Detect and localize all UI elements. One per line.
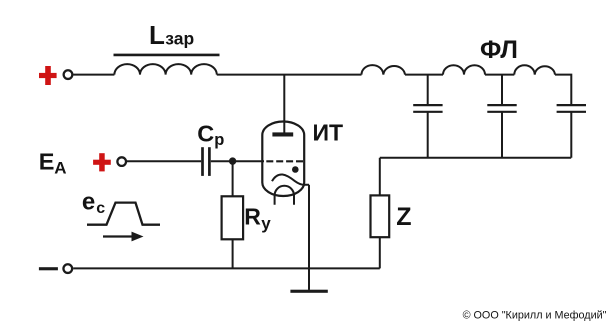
wire bottom bus — [73, 267, 380, 269]
minus terminal symbol — [39, 267, 58, 270]
inductor L2 (filter) — [362, 65, 406, 75]
capacitor C3 (filter) — [557, 105, 586, 112]
capacitor C2 (filter) — [487, 75, 516, 158]
wire cathode down to ground — [308, 185, 310, 290]
wire Ry bottom to bus — [232, 239, 234, 268]
tube anode lead wire — [283, 75, 285, 136]
svg-text:L: L — [149, 20, 165, 50]
label Lzar — [114, 20, 220, 55]
terminal node (positive supply) — [64, 70, 73, 79]
wire Cp to grid — [211, 160, 264, 162]
wire top rail middle — [217, 74, 362, 76]
wire junction to Ry — [232, 161, 234, 196]
tube IT envelope — [262, 122, 304, 197]
label EA — [39, 149, 67, 178]
svg-text:Z: Z — [396, 203, 411, 231]
svg-text:p: p — [214, 131, 224, 149]
wire filter bottom bus — [380, 157, 571, 159]
plus terminal symbol (+ grid bias) — [93, 153, 111, 171]
trigger pulse waveform (trapezoid) — [87, 203, 160, 225]
svg-text:R: R — [244, 204, 261, 230]
tube cathode — [272, 174, 309, 184]
arrow (pulse direction) — [103, 232, 144, 242]
svg-text:ИТ: ИТ — [313, 120, 344, 146]
wire top rail right + right drop — [555, 75, 571, 158]
junction node (grid / Ry) — [229, 157, 236, 164]
tube anode plate — [272, 132, 293, 136]
inductor L3 (filter) — [443, 65, 485, 74]
label Ry — [244, 204, 271, 233]
inductor L1 Lzar — [114, 64, 216, 75]
wire filter bus to Z top — [379, 158, 381, 196]
tube grid (dashed) — [266, 160, 303, 162]
wire top rail — [405, 74, 443, 76]
label Cp — [197, 120, 224, 149]
svg-text:A: A — [54, 158, 66, 177]
ground (chassis bar) — [290, 290, 327, 293]
wire Z bottom to bus — [379, 237, 381, 268]
resistor Z — [371, 195, 390, 237]
tube heater filament — [275, 186, 294, 205]
terminal node (grid input) — [117, 157, 126, 166]
svg-text:e: e — [82, 189, 95, 216]
label ec — [82, 189, 105, 218]
capacitor C1 (filter) — [413, 75, 442, 158]
wire top rail left — [73, 74, 114, 76]
resistor Ry — [222, 196, 244, 239]
wire top rail — [485, 74, 514, 76]
svg-text:C: C — [197, 120, 214, 146]
plus terminal symbol (+Ea top) — [39, 66, 57, 85]
inductor L4 (filter) — [514, 65, 555, 74]
tube gas-filled dot — [292, 166, 299, 173]
svg-text:© ООО "Кирилл и Мефодий": © ООО "Кирилл и Мефодий" — [463, 310, 607, 322]
svg-text:c: c — [96, 200, 105, 217]
svg-text:ФЛ: ФЛ — [480, 36, 518, 64]
wire middle rail to Cp — [127, 160, 201, 162]
svg-text:зар: зар — [165, 29, 194, 49]
terminal node (negative supply) — [63, 264, 72, 273]
svg-text:E: E — [39, 149, 55, 175]
svg-text:y: y — [261, 214, 271, 233]
capacitor Cp — [203, 147, 210, 176]
